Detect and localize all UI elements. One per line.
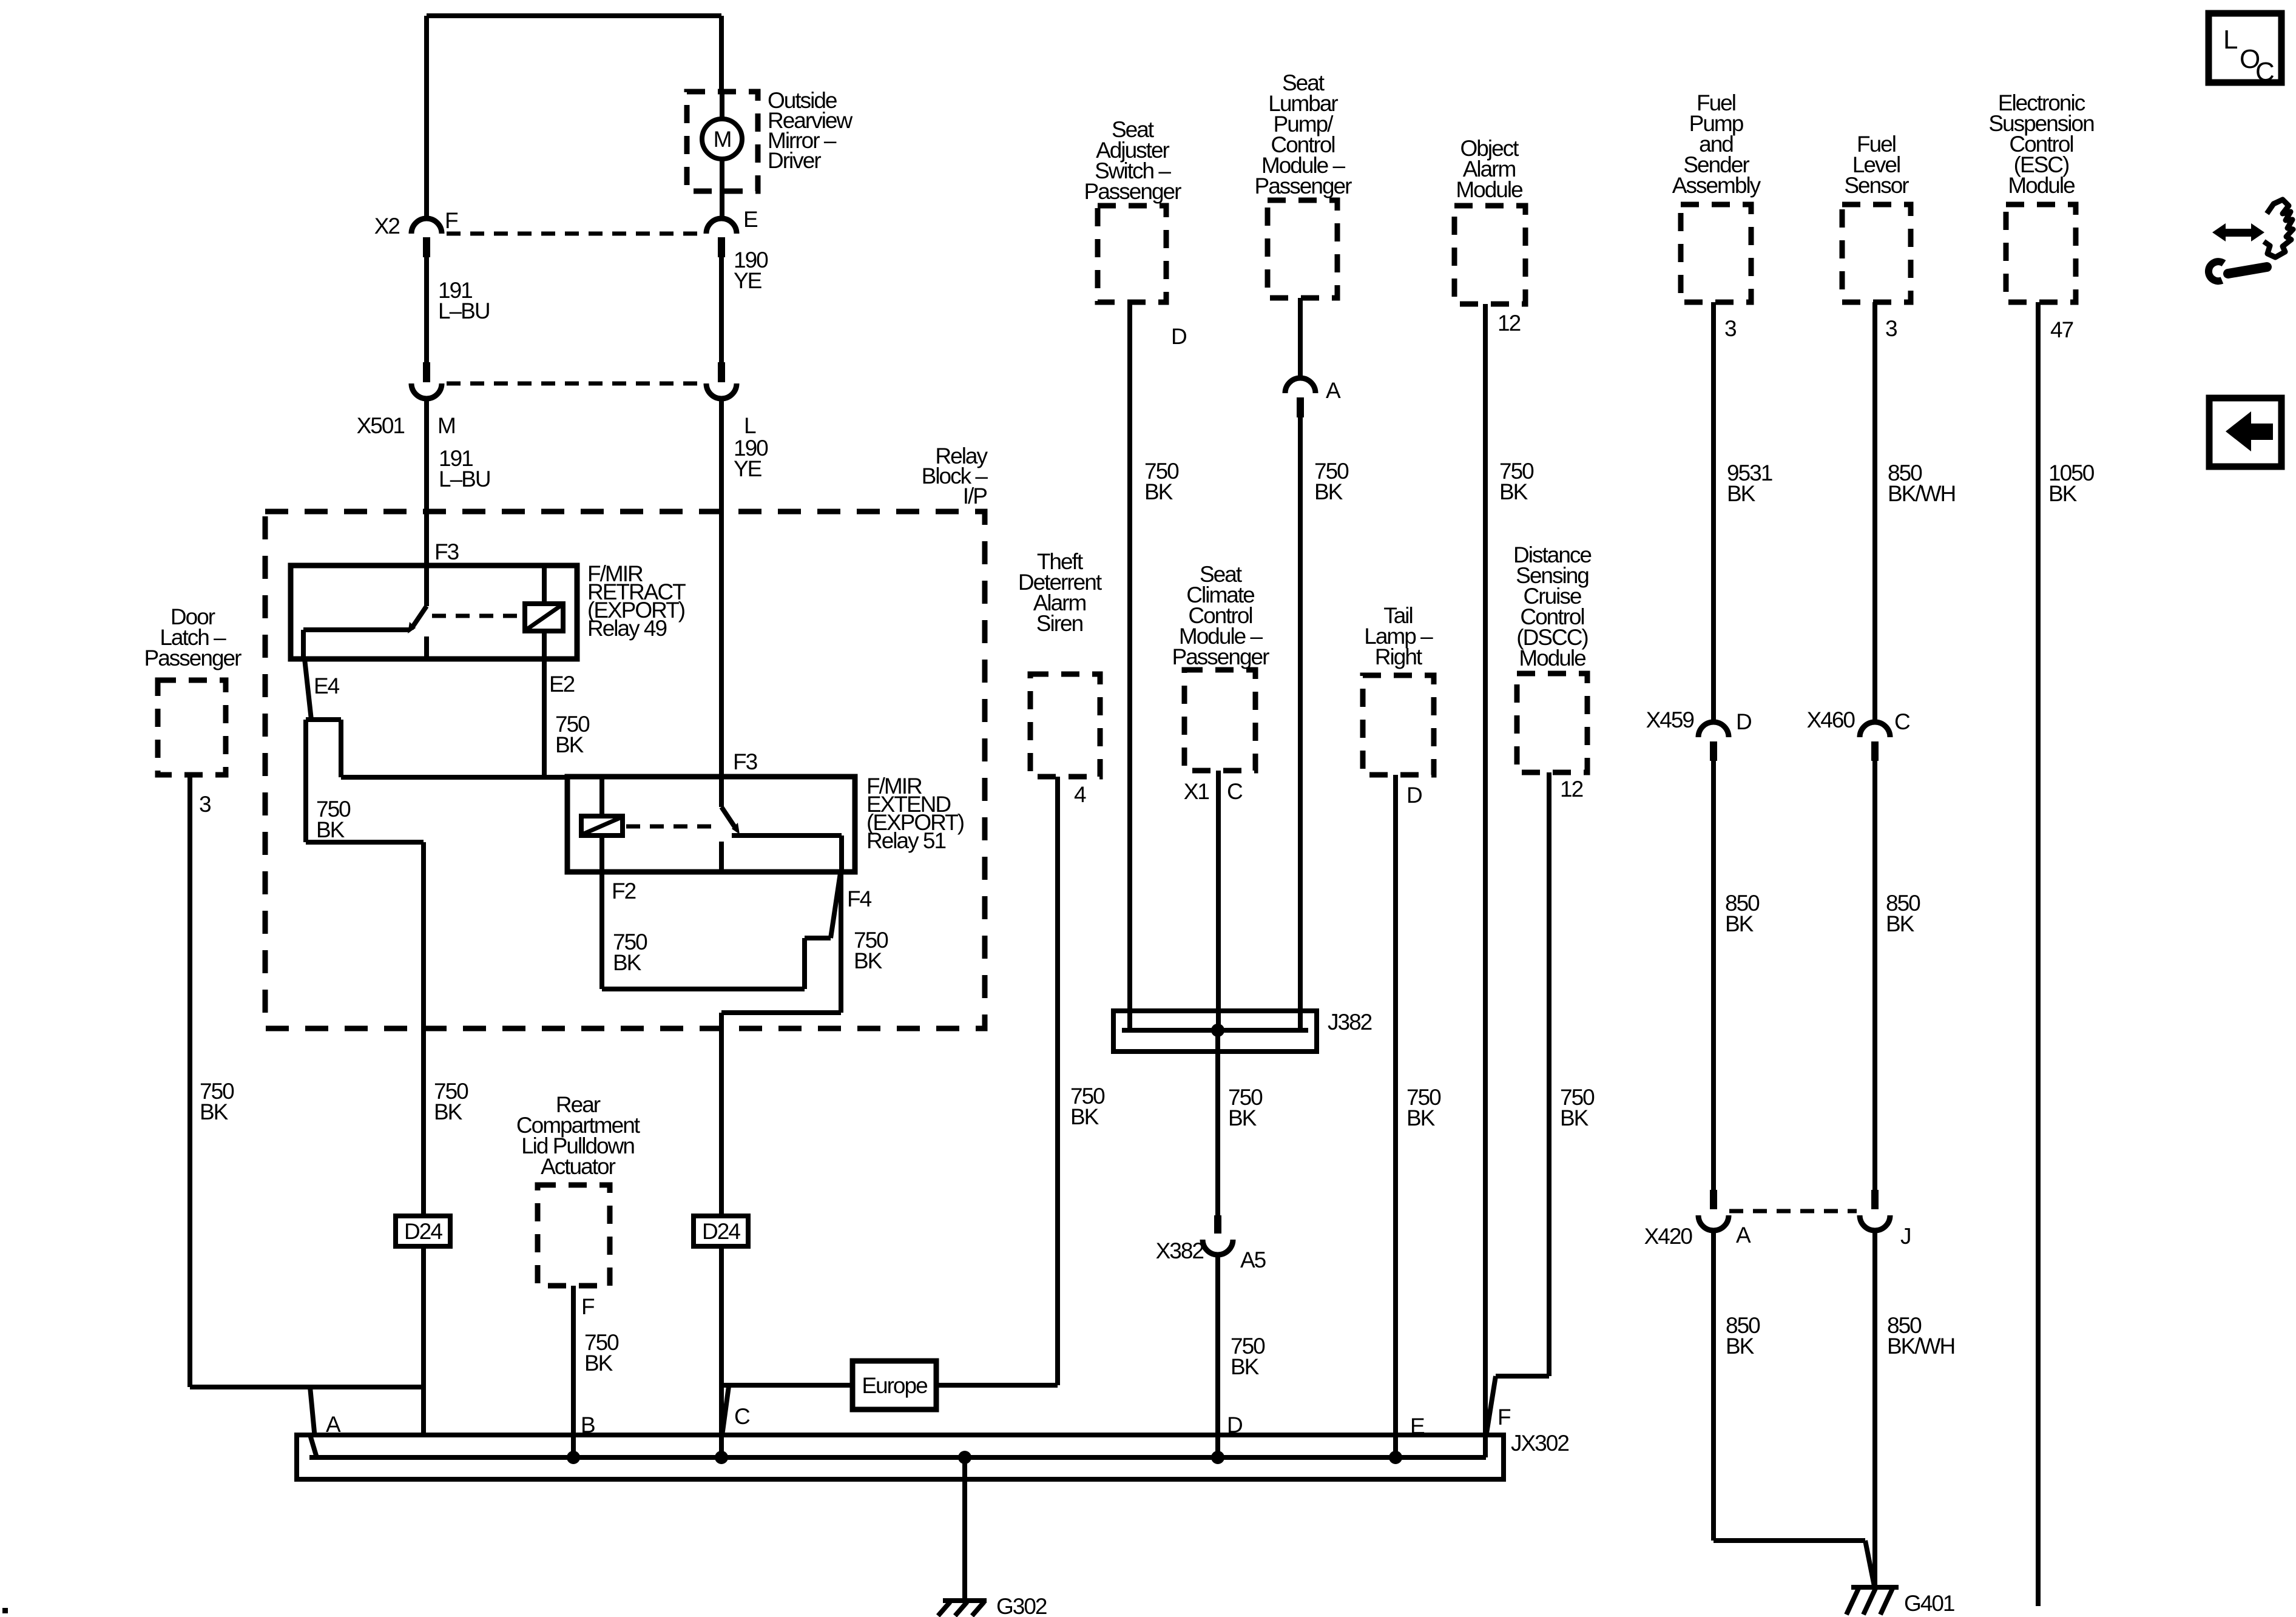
- svg-text:BK/WH: BK/WH: [1888, 481, 1955, 506]
- svg-text:BK: BK: [1231, 1354, 1260, 1379]
- svg-text:Module: Module: [1456, 177, 1522, 202]
- svg-text:M: M: [437, 413, 455, 438]
- svg-text:C: C: [1227, 779, 1243, 804]
- svg-text:X1: X1: [1184, 779, 1209, 804]
- svg-text:X382: X382: [1156, 1238, 1204, 1263]
- svg-text:BK: BK: [584, 1351, 613, 1376]
- svg-text:X2: X2: [374, 214, 400, 238]
- svg-text:D24: D24: [404, 1219, 442, 1244]
- svg-text:E: E: [1410, 1414, 1425, 1439]
- svg-text:E4: E4: [314, 673, 340, 698]
- svg-text:E2: E2: [549, 672, 575, 697]
- svg-text:BK: BK: [2048, 481, 2078, 506]
- svg-text:3: 3: [1885, 316, 1897, 341]
- svg-text:D24: D24: [702, 1219, 740, 1244]
- svg-text:C: C: [2255, 57, 2274, 87]
- svg-text:G401: G401: [1904, 1591, 1954, 1616]
- svg-text:BK: BK: [1886, 911, 1915, 936]
- svg-text:3: 3: [199, 792, 211, 817]
- svg-text:Relay 49: Relay 49: [587, 616, 666, 641]
- svg-text:Sensor: Sensor: [1844, 173, 1909, 198]
- svg-text:J: J: [1900, 1224, 1911, 1249]
- svg-text:X420: X420: [1644, 1224, 1693, 1249]
- svg-text:A: A: [1326, 378, 1341, 403]
- svg-text:F3: F3: [434, 539, 459, 564]
- svg-text:D: D: [1227, 1413, 1242, 1437]
- svg-text:X460: X460: [1807, 707, 1855, 732]
- svg-text:BK: BK: [555, 732, 584, 757]
- svg-text:Assembly: Assembly: [1672, 173, 1761, 198]
- svg-text:Module: Module: [1519, 646, 1585, 670]
- svg-text:BK: BK: [434, 1099, 463, 1124]
- svg-text:A5: A5: [1240, 1247, 1266, 1272]
- svg-text:E: E: [743, 207, 758, 232]
- svg-text:Right: Right: [1375, 644, 1423, 669]
- svg-text:BK: BK: [1499, 479, 1528, 504]
- svg-text:BK: BK: [1560, 1106, 1589, 1130]
- svg-text:JX302: JX302: [1511, 1431, 1568, 1456]
- svg-text:Passenger: Passenger: [1172, 644, 1270, 669]
- svg-text:BK: BK: [854, 948, 883, 973]
- svg-text:F4: F4: [847, 886, 872, 911]
- svg-text:D: D: [1736, 709, 1751, 734]
- svg-text:YE: YE: [734, 456, 762, 481]
- svg-text:12: 12: [1560, 777, 1583, 802]
- svg-text:Passenger: Passenger: [1084, 179, 1182, 204]
- svg-text:L: L: [2223, 25, 2238, 55]
- svg-text:F: F: [1497, 1405, 1511, 1430]
- svg-text:YE: YE: [734, 268, 762, 293]
- svg-text:M: M: [714, 127, 731, 152]
- svg-text:A: A: [1736, 1223, 1751, 1247]
- svg-text:12: 12: [1497, 311, 1521, 336]
- svg-text:F3: F3: [733, 749, 757, 774]
- svg-text:BK: BK: [1070, 1104, 1099, 1129]
- svg-text:G302: G302: [996, 1594, 1047, 1617]
- svg-text:BK: BK: [200, 1099, 229, 1124]
- svg-text:47: 47: [2050, 317, 2073, 342]
- svg-text:BK: BK: [1726, 1334, 1755, 1359]
- svg-text:F: F: [445, 208, 458, 233]
- svg-text:BK: BK: [1725, 911, 1754, 936]
- svg-text:D: D: [1171, 324, 1186, 349]
- svg-text:BK/WH: BK/WH: [1887, 1334, 1954, 1359]
- svg-text:C: C: [734, 1404, 750, 1429]
- svg-text:BK: BK: [1314, 479, 1343, 504]
- svg-text:X501: X501: [357, 413, 405, 438]
- svg-text:BK: BK: [1144, 479, 1173, 504]
- svg-text:Actuator: Actuator: [541, 1154, 615, 1179]
- svg-text:Driver: Driver: [768, 148, 821, 173]
- svg-text:BK: BK: [1727, 481, 1756, 506]
- svg-text:3: 3: [1724, 316, 1736, 341]
- svg-text:Passenger: Passenger: [1255, 174, 1352, 198]
- svg-text:4: 4: [1074, 782, 1086, 807]
- svg-text:Europe: Europe: [862, 1373, 927, 1398]
- svg-text:Module: Module: [2008, 173, 2075, 198]
- svg-text:Relay 51: Relay 51: [866, 828, 945, 853]
- svg-text:F: F: [581, 1294, 595, 1319]
- svg-text:L–BU: L–BU: [439, 467, 490, 491]
- svg-text:X459: X459: [1646, 707, 1694, 732]
- svg-text:J382: J382: [1328, 1010, 1372, 1035]
- svg-text:F2: F2: [612, 879, 636, 903]
- svg-text:BK: BK: [613, 950, 642, 975]
- svg-text:Passenger: Passenger: [144, 646, 242, 670]
- svg-text:D: D: [1406, 783, 1422, 808]
- svg-text:BK: BK: [1406, 1106, 1436, 1130]
- svg-text:BK: BK: [316, 817, 345, 842]
- svg-text:B: B: [581, 1413, 595, 1437]
- svg-text:L–BU: L–BU: [438, 299, 490, 323]
- svg-text:I/P: I/P: [963, 484, 987, 508]
- svg-text:L: L: [744, 413, 756, 438]
- svg-text:BK: BK: [1228, 1106, 1257, 1130]
- svg-text:C: C: [1894, 709, 1910, 734]
- svg-text:A: A: [326, 1412, 341, 1437]
- svg-text:Siren: Siren: [1036, 611, 1083, 636]
